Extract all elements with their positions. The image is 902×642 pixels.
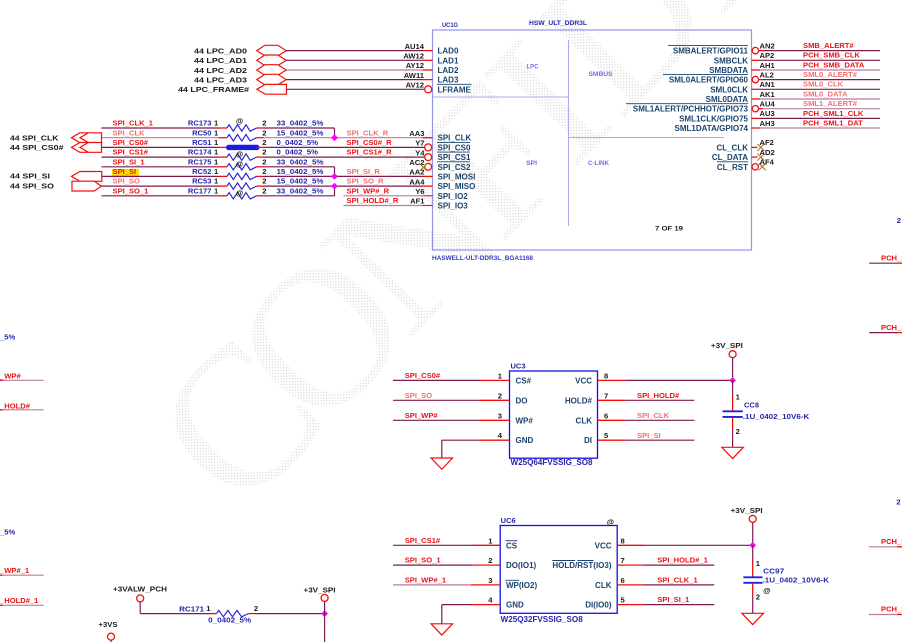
UC6 pin stub bbox=[471, 544, 500, 546]
wire SPI_CLK_1 to junction bbox=[264, 127, 335, 129]
svg-text:SPI_SI_1: SPI_SI_1 bbox=[113, 157, 146, 166]
UC1G pin AN2 stub bbox=[751, 50, 754, 52]
svg-text:PCH_SMB_CLK: PCH_SMB_CLK bbox=[803, 51, 860, 60]
UC1G pin Y6 stub bbox=[423, 195, 433, 197]
RC173 pin 2 stub bbox=[257, 127, 264, 129]
svg-text:PCH_SMB_DATA: PCH_SMB_DATA bbox=[803, 60, 865, 69]
svg-text:SPI_CS1#: SPI_CS1# bbox=[405, 536, 441, 545]
svg-text:AF2: AF2 bbox=[760, 138, 774, 147]
svg-text:2: 2 bbox=[262, 177, 266, 186]
svg-text:2: 2 bbox=[262, 138, 266, 147]
svg-text:SMBCLK: SMBCLK bbox=[714, 56, 748, 65]
svg-text:SPI_SO_1: SPI_SO_1 bbox=[405, 556, 442, 565]
svg-text:@: @ bbox=[236, 159, 243, 168]
svg-text:SPI_MISO: SPI_MISO bbox=[438, 182, 476, 191]
svg-text:Y7: Y7 bbox=[415, 139, 424, 148]
UC1G pin AD2 stub bbox=[752, 156, 758, 158]
wire LPC_AD3 bbox=[286, 79, 422, 81]
svg-text:HASWELL-ULT-DDR3L_BGA1168: HASWELL-ULT-DDR3L_BGA1168 bbox=[432, 255, 533, 262]
svg-text:CS#: CS# bbox=[516, 376, 532, 385]
wire SPI_HOLD#_R bbox=[344, 205, 423, 207]
svg-text:UC3: UC3 bbox=[511, 362, 526, 371]
wire SPI_WP# to UC3 bbox=[393, 419, 480, 421]
resistor RC177 body bbox=[227, 193, 257, 199]
wire LPC_FRAME# bbox=[287, 88, 425, 90]
svg-text:RC174: RC174 bbox=[188, 148, 212, 157]
svg-text:44 SPI_SO: 44 SPI_SO bbox=[10, 181, 54, 190]
svg-text:SPI_HOLD#_R: SPI_HOLD#_R bbox=[347, 196, 399, 205]
wire SPI_SI bbox=[626, 439, 695, 441]
svg-text:AW11: AW11 bbox=[404, 71, 425, 80]
svg-text:3: 3 bbox=[488, 576, 492, 585]
svg-text:WP#: WP# bbox=[516, 416, 534, 425]
ground symbol at UC6 bbox=[431, 624, 453, 635]
off-page connector 44 LPC_AD2 bbox=[257, 65, 286, 76]
svg-text:SML1_ALERT#: SML1_ALERT# bbox=[803, 99, 858, 108]
svg-text:SPI_SO: SPI_SO bbox=[405, 391, 433, 400]
svg-text:RC171: RC171 bbox=[179, 605, 205, 614]
wire SPI_WP#_1 cut bbox=[0, 574, 3, 576]
svg-text:SPI_SO_R: SPI_SO_R bbox=[347, 177, 385, 186]
UC1G internal section dividers bbox=[433, 40, 725, 226]
UC3 VCC pin stub bbox=[598, 379, 626, 381]
wire junction to CC8 bbox=[732, 380, 734, 396]
wire SPI_CS1# left segment bbox=[102, 156, 219, 158]
UC6 pin stub bbox=[617, 584, 643, 586]
svg-text:_WP#: _WP# bbox=[0, 372, 21, 381]
UC3 pin stub bbox=[480, 399, 510, 401]
UC1G pin Y7 stub bbox=[423, 137, 433, 139]
wire SPI_HOLD#_1 cut bbox=[0, 604, 3, 606]
UC1G LFRAME active-low overline bbox=[437, 83, 472, 85]
power symbol +3VS bbox=[108, 633, 115, 640]
wire SML1_ALERT# bbox=[759, 108, 763, 110]
svg-text:AV12: AV12 bbox=[406, 81, 424, 90]
svg-text:8: 8 bbox=[604, 371, 608, 380]
wire SPI_SO_1 to UC6 bbox=[393, 564, 471, 566]
svg-text:CL_CLK: CL_CLK bbox=[716, 143, 748, 152]
UC1G active-low overline bbox=[437, 141, 470, 143]
wire SPI_SI_1 to junction bbox=[264, 166, 335, 168]
svg-text:6: 6 bbox=[621, 576, 625, 585]
wire SPI_WP#_R to UC1G bbox=[264, 185, 423, 187]
svg-text:0_0402_5%: 0_0402_5% bbox=[208, 616, 251, 625]
wire SPI_CS1# to UC6 bbox=[393, 544, 471, 546]
svg-text:AY12: AY12 bbox=[406, 61, 424, 70]
svg-text:SPI_CS0#: SPI_CS0# bbox=[113, 138, 149, 147]
svg-text:2: 2 bbox=[736, 427, 740, 436]
UC1G pin Y4 inversion bubble bbox=[425, 144, 432, 151]
svg-text:SML0CLK: SML0CLK bbox=[710, 85, 748, 94]
svg-text:33_0402_5%: 33_0402_5% bbox=[277, 186, 324, 195]
svg-text:SMBALERT/GPIO11: SMBALERT/GPIO11 bbox=[673, 47, 749, 56]
resistor RC173 body bbox=[227, 125, 257, 131]
svg-text:SPI_CS2: SPI_CS2 bbox=[438, 163, 471, 172]
svg-text:7: 7 bbox=[604, 391, 608, 400]
svg-text:Y4: Y4 bbox=[415, 148, 425, 157]
svg-text:2: 2 bbox=[262, 167, 266, 176]
UC3 pin stub bbox=[598, 419, 626, 421]
svg-text:LAD3: LAD3 bbox=[438, 76, 459, 85]
svg-text:44 SPI_CLK: 44 SPI_CLK bbox=[10, 134, 59, 143]
svg-text:+3V_SPI: +3V_SPI bbox=[731, 506, 763, 515]
highlight box on net SPI_SI bbox=[112, 169, 139, 178]
UC1G active-low overline bbox=[663, 74, 748, 76]
svg-text:GND: GND bbox=[506, 601, 524, 610]
svg-text:W25Q32FVSSIG_SO8: W25Q32FVSSIG_SO8 bbox=[501, 615, 584, 624]
svg-text:@: @ bbox=[607, 517, 614, 526]
wire UC6 GND bbox=[442, 604, 471, 606]
wire +3VALW_PCH to RC171 bbox=[140, 613, 210, 615]
svg-text:SPI_CLK: SPI_CLK bbox=[113, 128, 146, 137]
svg-text:44 LPC_AD1: 44 LPC_AD1 bbox=[194, 56, 248, 65]
off-page connector 44 LPC_AD0 bbox=[257, 45, 286, 56]
svg-text:44 LPC_AD2: 44 LPC_AD2 bbox=[194, 66, 247, 75]
resistor RC174 body bbox=[227, 154, 257, 160]
wire SPI_SO_R to UC1G bbox=[264, 175, 423, 177]
svg-text:AF4: AF4 bbox=[760, 158, 775, 167]
IC UC3 W25Q64FVSSIG_SO8 body bbox=[510, 371, 598, 458]
RC50 pin 2 stub bbox=[257, 137, 264, 139]
svg-text:SPI_WP#_R: SPI_WP#_R bbox=[347, 186, 390, 195]
power symbol +3V_SPI (bottom) bbox=[321, 594, 328, 601]
wire +3VS down off-page bbox=[110, 640, 112, 642]
svg-text:33_0402_5%: 33_0402_5% bbox=[277, 119, 324, 128]
RC173 pin 1 stub bbox=[219, 127, 228, 129]
UC1G pin AW12 stub bbox=[423, 59, 433, 61]
svg-text:AU4: AU4 bbox=[760, 100, 776, 109]
wire +3V_SPI down off-page bbox=[324, 614, 326, 642]
svg-text:@: @ bbox=[236, 117, 243, 126]
UC1G pin AL2 inversion bubble bbox=[752, 76, 758, 82]
svg-text:LFRAME: LFRAME bbox=[438, 85, 472, 94]
wire junction up to +3V_SPI symbol bbox=[324, 601, 326, 613]
RC53 pin 1 stub bbox=[219, 185, 228, 187]
wire CC8 to ground bbox=[732, 418, 734, 429]
svg-text:HOLD#: HOLD# bbox=[565, 396, 593, 405]
svg-text:VCC: VCC bbox=[595, 541, 612, 550]
svg-text:@: @ bbox=[763, 586, 770, 595]
svg-text:2: 2 bbox=[896, 498, 900, 507]
RC175 pin 1 stub bbox=[219, 166, 228, 168]
wire PCH_ cut (4) bbox=[869, 614, 897, 616]
off-page connector 44 SPI_SI bbox=[72, 172, 102, 182]
svg-text:SPI: SPI bbox=[526, 160, 537, 167]
power symbol +3V_SPI (UC6) bbox=[749, 515, 756, 522]
UC3 pin stub bbox=[480, 419, 510, 421]
svg-text:PCH_SML1_DAT: PCH_SML1_DAT bbox=[803, 118, 863, 127]
svg-text:SPI_SI: SPI_SI bbox=[113, 167, 137, 176]
UC1G pin AP2 stub bbox=[752, 59, 761, 61]
power symbol +3V_SPI (UC3) bbox=[729, 351, 736, 358]
svg-text:DO(IO1): DO(IO1) bbox=[506, 561, 537, 570]
UC6 pin stub bbox=[471, 584, 500, 586]
svg-text:VCC: VCC bbox=[575, 376, 592, 385]
wire SPI_CS0# to UC3 bbox=[393, 379, 480, 381]
svg-text:0_0402_5%: 0_0402_5% bbox=[277, 138, 319, 147]
RC175 pin 2 stub bbox=[257, 166, 264, 168]
svg-text:RC177: RC177 bbox=[188, 186, 212, 195]
svg-text:2: 2 bbox=[262, 128, 266, 137]
svg-text:7: 7 bbox=[621, 556, 625, 565]
off-page connector 44 SPI_CLK bbox=[72, 133, 102, 143]
UC1G pin AU3 stub bbox=[752, 117, 761, 119]
svg-text:SMBDATA: SMBDATA bbox=[709, 66, 748, 75]
svg-text:2: 2 bbox=[262, 186, 266, 195]
RC52 pin 2 stub bbox=[257, 175, 264, 177]
svg-text:AD2: AD2 bbox=[760, 148, 775, 157]
svg-text:@: @ bbox=[236, 150, 243, 159]
svg-text:+3VALW_PCH: +3VALW_PCH bbox=[113, 585, 167, 594]
UC3 GND pin stub bbox=[480, 439, 510, 441]
svg-text:SPI_SI: SPI_SI bbox=[637, 431, 661, 440]
svg-text:SPI_IO2: SPI_IO2 bbox=[438, 192, 469, 201]
UC1G pin AU4 stub bbox=[751, 108, 754, 110]
svg-text:SPI_SI_R: SPI_SI_R bbox=[347, 167, 381, 176]
svg-text:44 LPC_AD0: 44 LPC_AD0 bbox=[194, 46, 247, 55]
svg-text:SPI_CS1#_R: SPI_CS1#_R bbox=[347, 148, 393, 157]
UC1G pin AW11 stub bbox=[423, 79, 433, 81]
RC174 pin 2 stub bbox=[257, 156, 264, 158]
UC3 pin stub bbox=[480, 379, 510, 381]
svg-text:+3V_SPI: +3V_SPI bbox=[304, 586, 336, 595]
svg-text:CL_RST: CL_RST bbox=[717, 163, 748, 172]
svg-text:SPI_HOLD#_1: SPI_HOLD#_1 bbox=[657, 556, 708, 565]
svg-text:SPI_CLK_1: SPI_CLK_1 bbox=[657, 576, 698, 585]
svg-text:CL_DATA: CL_DATA bbox=[712, 153, 748, 162]
wire +3V_SPI to UC3 VCC bbox=[626, 379, 733, 381]
UC1G pin AN2 inversion bubble bbox=[752, 47, 758, 53]
wire +3V_SPI to UC6 VCC bbox=[645, 544, 753, 546]
svg-text:2: 2 bbox=[488, 556, 492, 565]
UC1G pin AF2 stub bbox=[752, 146, 758, 148]
wire PCH_ cut (2) bbox=[869, 332, 897, 334]
wire SPI_SO to UC3 bbox=[393, 399, 480, 401]
UC1G pin AF4 stub bbox=[751, 166, 754, 168]
wire SPI_CLK bbox=[626, 419, 695, 421]
svg-text:PCH_S: PCH_S bbox=[881, 537, 902, 546]
svg-text:CLK: CLK bbox=[595, 581, 612, 590]
UC1G pin AH1 stub bbox=[752, 69, 761, 71]
ground symbol at UC3 bbox=[431, 458, 453, 469]
wire SPI_CS0#_R to UC1G bbox=[264, 137, 423, 139]
IC UC6 W25Q32FVSSIG_SO8 body bbox=[500, 526, 617, 614]
wire SPI_HOLD#_1 bbox=[643, 564, 714, 566]
wire +3VALW_PCH down bbox=[139, 602, 141, 614]
junction SPI_SO_R bbox=[331, 183, 338, 190]
UC3 pin stub bbox=[598, 399, 626, 401]
IC UC1G HSW_ULT_DDR3L (Haswell PCH) body bbox=[433, 30, 752, 250]
wire PCH_SMB_DATA bbox=[760, 69, 880, 71]
svg-text:AU14: AU14 bbox=[405, 42, 425, 51]
svg-text:SML0ALERT/GPIO60: SML0ALERT/GPIO60 bbox=[669, 76, 749, 85]
svg-text:SML0_DATA: SML0_DATA bbox=[803, 89, 848, 98]
off-page connector 44 LPC_AD1 bbox=[257, 55, 286, 66]
UC1G CL_RST active-low overline bbox=[717, 161, 748, 163]
svg-text:PCH_S: PCH_S bbox=[881, 323, 902, 332]
svg-text:SPI_CS0: SPI_CS0 bbox=[438, 143, 471, 152]
wire UC3 GND bbox=[442, 439, 480, 441]
svg-text:SPI_CS0#_R: SPI_CS0#_R bbox=[347, 138, 393, 147]
UC6 VCC pin stub bbox=[617, 544, 645, 546]
svg-text:@: @ bbox=[236, 188, 243, 197]
resistor RC52 body bbox=[227, 173, 257, 179]
svg-text:SPI_SI_1: SPI_SI_1 bbox=[657, 595, 690, 604]
UC6 RST overline bbox=[577, 560, 593, 562]
svg-text:LAD0: LAD0 bbox=[438, 47, 459, 56]
resistor RC171 body bbox=[217, 610, 249, 616]
svg-text:.1U_0402_10V6-K: .1U_0402_10V6-K bbox=[763, 576, 830, 585]
UC1G pin AN1 stub bbox=[752, 88, 761, 90]
svg-text:SMB_ALERT#: SMB_ALERT# bbox=[803, 41, 854, 50]
svg-text:AF1: AF1 bbox=[410, 197, 425, 206]
svg-text:+3VS: +3VS bbox=[99, 620, 118, 629]
wire SPI_WP# cut bbox=[0, 379, 3, 381]
svg-text:7 OF 19: 7 OF 19 bbox=[655, 226, 683, 233]
svg-text:SPI_CS1#: SPI_CS1# bbox=[113, 148, 149, 157]
RC50 pin 1 stub bbox=[219, 137, 228, 139]
wire PCH_SML1_CLK bbox=[760, 117, 880, 119]
svg-text:_5%: _5% bbox=[0, 333, 15, 342]
UC1G active-low overline bbox=[626, 103, 748, 105]
off-page connector 44 SPI_CS0# bbox=[72, 143, 102, 153]
resistor RC53 body bbox=[227, 183, 257, 189]
svg-text:DI(IO0): DI(IO0) bbox=[585, 601, 612, 610]
svg-text:2: 2 bbox=[262, 119, 266, 128]
svg-text:LPC: LPC bbox=[527, 64, 540, 71]
svg-text:SPI_WP#_1: SPI_WP#_1 bbox=[405, 576, 447, 585]
svg-text:RC175: RC175 bbox=[188, 157, 212, 166]
wire SPI_WP#_R bbox=[344, 195, 423, 197]
svg-text:PCH_SML1_CLK: PCH_SML1_CLK bbox=[803, 109, 864, 118]
wire SPI_HOLD# bbox=[626, 399, 695, 401]
junction +3V_SPI / CC8 bbox=[729, 377, 736, 384]
RC53 pin 2 stub bbox=[257, 185, 264, 187]
UC1G pin AK1 stub bbox=[752, 98, 761, 100]
svg-text:CC8: CC8 bbox=[744, 401, 759, 410]
wire SML0_DATA bbox=[760, 98, 880, 100]
svg-text:2: 2 bbox=[756, 593, 760, 602]
svg-text:SPI_CS0#: SPI_CS0# bbox=[405, 371, 441, 380]
RC177 pin 2 stub bbox=[257, 195, 264, 197]
wire SML0_ALERT# bbox=[759, 79, 763, 81]
svg-text:AP2: AP2 bbox=[760, 51, 775, 60]
svg-text:SPI_CLK_1: SPI_CLK_1 bbox=[113, 119, 154, 128]
UC1G pin AY12 stub bbox=[423, 69, 433, 71]
wire junction to CC97 bbox=[752, 545, 754, 562]
wire SPI_SI_1 bbox=[643, 604, 714, 606]
svg-text:AH3: AH3 bbox=[760, 119, 775, 128]
svg-text:AL2: AL2 bbox=[760, 70, 774, 79]
wire SPI_CS0# to UC1G bbox=[264, 146, 425, 148]
svg-text:SPI_CS1: SPI_CS1 bbox=[438, 153, 471, 162]
svg-text:2: 2 bbox=[262, 157, 266, 166]
svg-text:15_0402_5%: 15_0402_5% bbox=[277, 167, 324, 176]
svg-text:WP(IO2): WP(IO2) bbox=[506, 581, 537, 590]
UC1G pin AH3 stub bbox=[752, 127, 761, 129]
UC1G pin AF1 stub bbox=[423, 205, 433, 207]
svg-text:SPI_WP#: SPI_WP# bbox=[405, 411, 439, 420]
RC174 pin 1 stub bbox=[219, 156, 228, 158]
RC51 pin 1 stub bbox=[219, 146, 228, 148]
wire PCH_ cut (3) bbox=[869, 546, 897, 548]
svg-text:UC1G: UC1G bbox=[442, 22, 458, 29]
svg-text:_HOLD#_1: _HOLD#_1 bbox=[0, 596, 39, 605]
svg-text:SMBUS: SMBUS bbox=[589, 71, 613, 78]
svg-text:AA4: AA4 bbox=[409, 177, 425, 186]
svg-text:SML0_CLK: SML0_CLK bbox=[803, 80, 844, 89]
UC1G active-low overline bbox=[437, 161, 470, 163]
wire SPI_CS0# left segment bbox=[102, 146, 219, 148]
svg-text:SML0_ALERT#: SML0_ALERT# bbox=[803, 70, 858, 79]
svg-text:RC50: RC50 bbox=[192, 128, 211, 137]
wire SPI_CLK_1 left segment bbox=[102, 127, 219, 129]
RC52 pin 1 stub bbox=[219, 175, 228, 177]
svg-text:SPI_IO3: SPI_IO3 bbox=[438, 202, 469, 211]
svg-text:SML0DATA: SML0DATA bbox=[706, 95, 749, 104]
svg-text:PCH_S: PCH_S bbox=[881, 254, 902, 263]
svg-text:AU3: AU3 bbox=[760, 109, 775, 118]
wire PCH_SML1_DAT bbox=[760, 127, 880, 129]
svg-text:AH1: AH1 bbox=[760, 61, 776, 70]
svg-text:AK1: AK1 bbox=[760, 90, 776, 99]
junction +3V_SPI rail bbox=[321, 610, 328, 617]
svg-text:3: 3 bbox=[498, 411, 502, 420]
wire +3V_SPI vertical (UC6) bbox=[752, 522, 754, 545]
UC6 pin stub bbox=[617, 564, 643, 566]
UC1G active-low overline bbox=[437, 151, 470, 153]
wire SML0_CLK bbox=[760, 88, 880, 90]
wire RC171 to +3V_SPI bbox=[255, 613, 325, 615]
UC1G pin AL2 stub bbox=[751, 79, 754, 81]
svg-text:SML1ALERT/PCHHOT/GPIO73: SML1ALERT/PCHHOT/GPIO73 bbox=[633, 105, 749, 114]
power symbol +3VALW_PCH bbox=[137, 595, 144, 602]
junction +3V_SPI / CC97 bbox=[749, 542, 756, 549]
svg-text:_HOLD#: _HOLD# bbox=[0, 401, 31, 410]
wire LPC_AD2 bbox=[286, 69, 422, 71]
UC1G pin AU14 stub bbox=[423, 50, 433, 52]
svg-text:LAD1: LAD1 bbox=[438, 56, 459, 65]
wire SPI_CLK left segment bbox=[102, 137, 219, 139]
svg-text:44 LPC_AD3: 44 LPC_AD3 bbox=[194, 75, 247, 84]
svg-text:44 SPI_SI: 44 SPI_SI bbox=[10, 172, 50, 181]
svg-text:+3V_SPI: +3V_SPI bbox=[711, 341, 743, 350]
resistor RC51 zero-ohm body (solid) bbox=[226, 145, 260, 150]
wire PCH_ cut (1) bbox=[869, 262, 897, 264]
svg-text:AW12: AW12 bbox=[403, 52, 424, 61]
svg-text:CS: CS bbox=[506, 541, 518, 550]
svg-text:8: 8 bbox=[621, 536, 625, 545]
RC51 pin 2 stub bbox=[257, 146, 264, 148]
ground symbol at CC97 bbox=[742, 613, 764, 624]
wire PCH_SMB_CLK bbox=[760, 59, 880, 61]
svg-text:15_0402_5%: 15_0402_5% bbox=[277, 177, 324, 186]
wire CC97 to ground bbox=[752, 584, 754, 595]
UC1G pin AA4 stub bbox=[423, 175, 433, 177]
wire SPI_WP#_1 to UC6 bbox=[393, 584, 471, 586]
UC1G pin AV12 inversion bubble bbox=[425, 86, 432, 93]
svg-text:RC53: RC53 bbox=[192, 177, 211, 186]
svg-text:AA3: AA3 bbox=[409, 129, 424, 138]
wire +3V_SPI vertical bbox=[732, 358, 734, 381]
wire SPI_SO_1 left segment bbox=[102, 195, 219, 197]
wire SPI_CS1# to UC1G bbox=[264, 156, 425, 158]
capacitor CC97 plates bbox=[743, 576, 762, 578]
svg-text:AN1: AN1 bbox=[760, 80, 776, 89]
UC6 pin stub bbox=[471, 564, 500, 566]
svg-text:2: 2 bbox=[498, 391, 502, 400]
svg-text:SML1CLK/GPIO75: SML1CLK/GPIO75 bbox=[679, 114, 748, 123]
